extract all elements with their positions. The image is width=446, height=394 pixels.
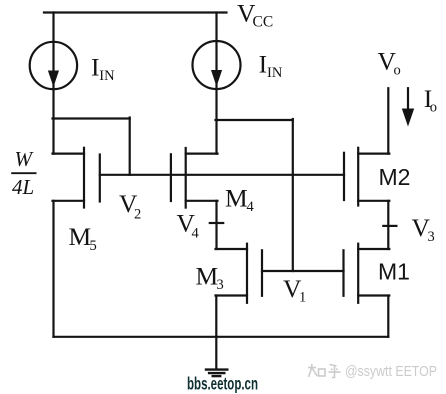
svg-text:M: M — [196, 262, 219, 291]
svg-text:M: M — [69, 222, 92, 251]
wire M5 source down to bottom rail — [52, 201, 54, 337]
wire left branch from VCC rail through IIN1 to M5 drain — [52, 13, 54, 154]
tick V4 measurement mark — [210, 222, 223, 224]
wire top gate line from M5 gate to M2 gate — [100, 174, 344, 176]
watermark zhihu hu glyph — [329, 365, 341, 378]
wire from node at IIN2 branch going right (horizontal) — [216, 119, 293, 121]
wire Vo output node down to M2 drain — [387, 88, 389, 153]
wire M4 source to M3 drain — [215, 201, 217, 249]
label V4 — [177, 209, 200, 242]
watermark bbs.eetop.cn — [187, 374, 258, 394]
svg-text:1: 1 — [299, 290, 306, 306]
label Io — [424, 84, 437, 116]
svg-text:4: 4 — [247, 199, 255, 215]
current source IIN2 — [193, 41, 241, 89]
watermark zhihu zhi glyph — [308, 364, 325, 377]
label W/4L size ratio — [11, 147, 36, 199]
label V3 — [412, 213, 435, 245]
svg-text:5: 5 — [90, 238, 97, 254]
current source IIN1 — [30, 42, 77, 89]
tick V3 measurement mark — [383, 225, 396, 227]
svg-text:I: I — [259, 50, 268, 79]
wire vertical from M4 drain node down to bottom gate line — [292, 119, 294, 271]
svg-text:4L: 4L — [12, 175, 34, 199]
svg-text:M1: M1 — [378, 258, 410, 284]
wire bottom rail — [54, 336, 389, 338]
ground — [206, 370, 227, 377]
wire vertical drop into top gate line — [129, 118, 131, 175]
svg-text:2: 2 — [134, 207, 141, 223]
wire M2 source to M1 drain — [387, 201, 389, 249]
svg-text:CC: CC — [253, 14, 274, 31]
svg-text:o: o — [394, 62, 401, 78]
label M1 — [378, 258, 410, 284]
label IIN1 — [91, 53, 115, 85]
svg-text:bbs.eetop.cn: bbs.eetop.cn — [187, 374, 258, 394]
svg-text:3: 3 — [217, 277, 224, 293]
wire bottom gate line from M3 gate to M1 gate — [262, 270, 344, 272]
svg-text:4: 4 — [192, 225, 200, 241]
transistor M1 — [344, 244, 390, 303]
wire M1 source down to bottom rail — [387, 296, 389, 337]
svg-text:IN: IN — [267, 65, 283, 81]
label M2 — [379, 164, 411, 190]
label V1 — [283, 274, 306, 305]
wire VCC top rail — [44, 11, 227, 13]
svg-text:W: W — [15, 147, 35, 171]
transistor M5 — [53, 148, 100, 208]
label VCC — [237, 0, 273, 31]
watermark zhihu text — [345, 363, 437, 380]
svg-text:@ssywtt EETOP: @ssywtt EETOP — [345, 363, 437, 380]
transistor M4 — [171, 148, 218, 208]
svg-text:3: 3 — [428, 229, 435, 245]
wire M3 source down to ground — [215, 296, 217, 370]
svg-text:IN: IN — [99, 68, 115, 84]
label M5 — [69, 222, 97, 254]
svg-text:M2: M2 — [379, 164, 411, 190]
arrow Io output current — [402, 88, 414, 126]
wire middle branch from VCC rail through IIN2 to M4 drain — [215, 13, 217, 154]
label M3 — [196, 262, 224, 294]
svg-text:I: I — [91, 53, 100, 82]
transistor M3 — [216, 244, 263, 303]
label Vo — [378, 47, 401, 79]
svg-text:M: M — [225, 183, 248, 212]
label M4 — [225, 183, 255, 215]
label V2 — [119, 189, 141, 223]
svg-text:o: o — [430, 100, 437, 116]
transistor M2 — [344, 148, 389, 206]
label IIN2 — [259, 50, 283, 81]
wire from node at IIN1 branch to gate line (horizontal) — [53, 117, 130, 119]
